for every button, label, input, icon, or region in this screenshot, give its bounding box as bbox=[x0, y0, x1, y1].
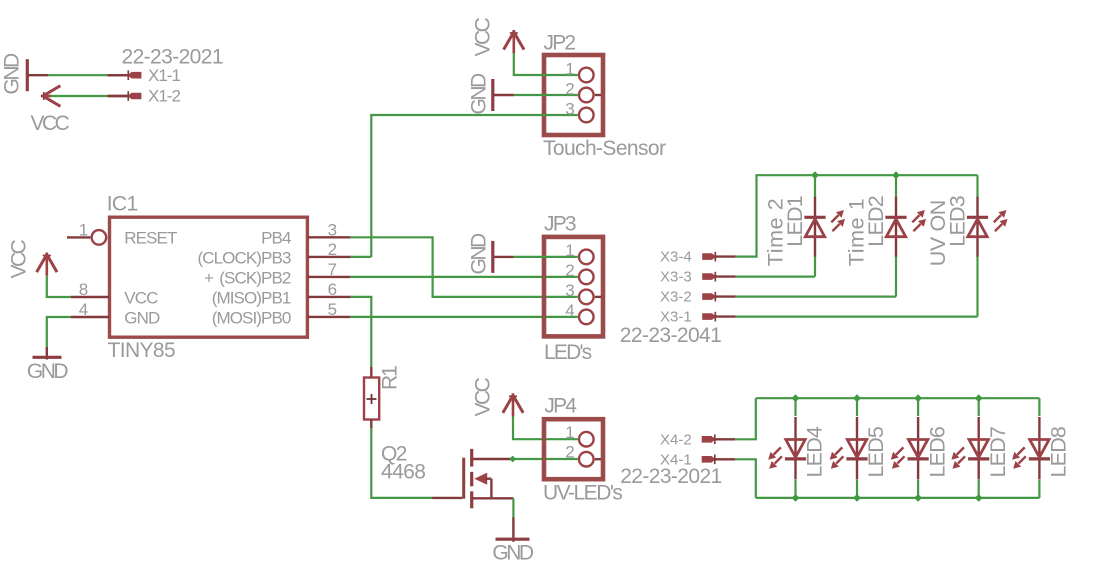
svg-text:3: 3 bbox=[565, 281, 574, 300]
connector JP2 box bbox=[544, 55, 603, 135]
wire GND to JP2 pin 2 bbox=[514, 94, 578, 96]
svg-text:GND: GND bbox=[27, 360, 69, 383]
IC1 pin 1 RESET bbox=[67, 230, 106, 245]
wire GND to JP3 pin 1 bbox=[514, 256, 578, 258]
LED LED7 bbox=[951, 417, 989, 479]
JP4 pin 2 bbox=[579, 452, 601, 467]
svg-text:8: 8 bbox=[79, 280, 88, 299]
svg-text:5: 5 bbox=[328, 300, 337, 319]
svg-text:+: + bbox=[204, 269, 214, 288]
svg-text:RESET: RESET bbox=[124, 229, 177, 248]
svg-text:VCC: VCC bbox=[8, 239, 31, 278]
svg-text:LED3: LED3 bbox=[945, 195, 969, 246]
junction at LED7 anode bbox=[975, 394, 983, 402]
svg-text:LED5: LED5 bbox=[864, 426, 888, 477]
svg-text:LED2: LED2 bbox=[864, 196, 888, 247]
wire rail to LED2 bbox=[895, 175, 897, 198]
svg-text:6: 6 bbox=[328, 280, 337, 299]
wire IC1 PB1 to R1 bbox=[350, 297, 371, 368]
wire LED6 to cathode rail bbox=[917, 480, 919, 498]
wire VCC to JP4 pin 1 bbox=[513, 416, 578, 439]
wire X3-3 to LED1 bbox=[736, 276, 815, 278]
wire rail to LED7 bbox=[978, 398, 980, 416]
svg-text:GND: GND bbox=[468, 233, 491, 275]
svg-text:2: 2 bbox=[328, 240, 337, 259]
supply symbol VCC at JP4 bbox=[503, 393, 523, 416]
svg-text:X1-1: X1-1 bbox=[148, 66, 180, 85]
svg-text:4468: 4468 bbox=[381, 461, 425, 484]
svg-text:X4-2: X4-2 bbox=[660, 432, 692, 449]
pin X3-4 bbox=[703, 252, 736, 262]
wire X4-2 to UV rail top bbox=[735, 398, 756, 439]
wire UV cathode rail bbox=[756, 497, 1040, 499]
LED LED1 bbox=[804, 197, 845, 257]
Q2 gate pin wire bbox=[432, 497, 462, 499]
svg-text:VCC: VCC bbox=[472, 17, 495, 56]
wire rail to LED8 bbox=[1038, 398, 1040, 416]
JP3 pin 1 bbox=[579, 250, 594, 265]
svg-text:LED7: LED7 bbox=[986, 427, 1010, 478]
connector JP3 box bbox=[544, 237, 603, 337]
wire IC1 PB0 to JP3 pin 4 bbox=[350, 316, 577, 318]
svg-text:IC1: IC1 bbox=[107, 193, 138, 216]
wire LED1 to X3-3 bbox=[814, 257, 816, 277]
ground symbol at X1-1 bbox=[27, 59, 48, 91]
junction at LED2 anode rail bbox=[892, 171, 900, 179]
wire IC1 pin 4 to GND bbox=[47, 317, 71, 348]
svg-text:1: 1 bbox=[565, 59, 574, 78]
wire rail to LED5 bbox=[856, 398, 858, 416]
svg-text:VCC: VCC bbox=[472, 377, 495, 416]
wire JP2 pin 3 to IC1 PB3 bbox=[371, 115, 578, 257]
JP3 pin 3 bbox=[579, 290, 602, 305]
pin X3-3 bbox=[703, 272, 736, 282]
wire Q2 source to GND bbox=[512, 498, 514, 519]
svg-text:22-23-2021: 22-23-2021 bbox=[122, 46, 223, 69]
IC1 pin 2 PB3 bbox=[308, 256, 350, 258]
svg-text:Touch-Sensor: Touch-Sensor bbox=[543, 137, 666, 160]
svg-text:LED1: LED1 bbox=[783, 196, 807, 247]
svg-text:X1-2: X1-2 bbox=[148, 87, 180, 106]
svg-text:LED4: LED4 bbox=[803, 426, 827, 477]
svg-text:3: 3 bbox=[565, 99, 574, 118]
svg-text:LED6: LED6 bbox=[925, 426, 949, 477]
svg-text:JP4: JP4 bbox=[544, 395, 577, 418]
wire X3-1 to LED3 bbox=[736, 316, 978, 318]
wire rail to LED6 bbox=[917, 398, 919, 416]
svg-text:(MOSI)PB0: (MOSI)PB0 bbox=[212, 309, 291, 328]
svg-text:1: 1 bbox=[565, 423, 574, 442]
wire VCC to X1-2 bbox=[51, 95, 109, 97]
IC1 pin 8 VCC bbox=[71, 296, 109, 298]
pin X4-2 bbox=[702, 435, 735, 445]
wire LED5 to cathode rail bbox=[856, 480, 858, 498]
svg-text:X3-3: X3-3 bbox=[660, 269, 692, 286]
pin X3-2 bbox=[703, 292, 736, 302]
wire GND to X1-1 bbox=[48, 74, 108, 76]
svg-text:(MISO)PB1: (MISO)PB1 bbox=[212, 289, 291, 308]
svg-text:2: 2 bbox=[565, 261, 574, 280]
pin X1-2 bbox=[108, 91, 141, 101]
junction at LED5 anode bbox=[853, 394, 861, 402]
svg-text:X3-1: X3-1 bbox=[660, 309, 692, 326]
svg-text:R1: R1 bbox=[379, 366, 402, 390]
svg-text:VCC: VCC bbox=[124, 288, 158, 307]
wire X3-2 to LED2 bbox=[736, 296, 896, 298]
LED LED4 bbox=[768, 417, 806, 479]
junction at LED4 cathode bbox=[792, 494, 800, 502]
svg-text:4: 4 bbox=[79, 300, 88, 319]
svg-text:LED8: LED8 bbox=[1047, 426, 1071, 477]
wire rail to LED3 bbox=[976, 175, 978, 198]
wire X4-1 to UV rail bottom bbox=[735, 459, 756, 498]
svg-text:2: 2 bbox=[565, 79, 574, 98]
wire LED8 to cathode rail bbox=[1038, 480, 1040, 498]
JP2 pin 3 bbox=[579, 108, 594, 123]
svg-text:4: 4 bbox=[565, 301, 574, 320]
ground symbol at JP3 pin 1 bbox=[493, 241, 514, 273]
wire LED7 to cathode rail bbox=[978, 480, 980, 498]
svg-text:3: 3 bbox=[328, 221, 337, 240]
wire VCC to IC1 pin 8 bbox=[47, 276, 71, 297]
junction at LED5 cathode bbox=[853, 494, 861, 502]
svg-text:LED's: LED's bbox=[544, 341, 592, 364]
junction at LED6 anode bbox=[914, 394, 922, 402]
supply symbol VCC at IC1 bbox=[37, 253, 57, 276]
LED LED5 bbox=[830, 417, 868, 479]
IC U1 (IC1 TINY85) box bbox=[110, 217, 308, 337]
IC1 pin 6 PB1 bbox=[308, 296, 350, 298]
IC1 pin 5 PB0 bbox=[308, 316, 350, 318]
wire rail to LED1 bbox=[814, 175, 816, 198]
wire IC1 PB2 to JP3 pin 2 bbox=[350, 276, 577, 278]
IC1 pin 4 GND bbox=[71, 316, 109, 318]
pin X4-1 bbox=[702, 455, 735, 465]
resistor R1 bbox=[364, 367, 379, 428]
junction at LED4 anode bbox=[792, 394, 800, 402]
svg-text:2: 2 bbox=[565, 443, 574, 462]
svg-text:GND: GND bbox=[1, 53, 24, 95]
junction at LED7 cathode bbox=[975, 494, 983, 502]
transistor Q2 (MOSFET) bbox=[464, 449, 514, 508]
svg-text:GND: GND bbox=[468, 73, 491, 115]
junction at LED6 cathode bbox=[914, 494, 922, 502]
wire VCC to JP2 pin 1 bbox=[514, 53, 578, 75]
connector JP4 box bbox=[544, 419, 603, 479]
JP2 pin 2 bbox=[579, 88, 601, 103]
svg-text:1: 1 bbox=[79, 220, 88, 239]
svg-text:GND: GND bbox=[124, 309, 160, 328]
LED LED3 bbox=[967, 197, 1008, 257]
svg-text:VCC: VCC bbox=[31, 112, 70, 135]
IC1 pin 3 PB4 bbox=[308, 236, 350, 238]
svg-text:1: 1 bbox=[565, 241, 574, 260]
IC1 pin 7 PB2 bbox=[308, 276, 350, 278]
wire IC1 PB3 stub to JP2 net bbox=[350, 256, 371, 258]
svg-text:X3-4: X3-4 bbox=[660, 249, 692, 266]
wire IC1 PB4 to JP3 pin 3 bbox=[350, 237, 577, 297]
pin X1-1 bbox=[108, 70, 141, 80]
LED LED6 bbox=[891, 417, 929, 479]
svg-text:(CLOCK)PB3: (CLOCK)PB3 bbox=[197, 249, 290, 268]
JP2 pin 1 bbox=[579, 68, 594, 83]
svg-text:JP2: JP2 bbox=[544, 32, 576, 55]
JP3 pin 4 bbox=[579, 310, 594, 325]
svg-text:7: 7 bbox=[328, 260, 337, 279]
LED LED2 bbox=[885, 197, 926, 257]
svg-text:(SCK)PB2: (SCK)PB2 bbox=[219, 269, 291, 288]
ground symbol below Q2 bbox=[496, 518, 530, 542]
wire LED2 to X3-2 bbox=[895, 257, 897, 297]
IC1 pin name + (SCK)PB2 bbox=[204, 269, 291, 288]
wire LED4 to cathode rail bbox=[794, 480, 796, 498]
svg-text:22-23-2041: 22-23-2041 bbox=[620, 324, 721, 347]
supply symbol VCC at X1-2 bbox=[41, 86, 61, 107]
svg-text:PB4: PB4 bbox=[261, 229, 291, 248]
junction at LED1 anode rail bbox=[811, 171, 819, 179]
wire X3-4 to LED rail bbox=[736, 175, 978, 256]
svg-text:UV-LED's: UV-LED's bbox=[543, 482, 622, 505]
JP4 pin 1 bbox=[579, 432, 594, 447]
wire R1 to Q2 gate bbox=[371, 428, 433, 498]
pin X3-1 bbox=[703, 312, 736, 322]
svg-text:TINY85: TINY85 bbox=[108, 339, 176, 362]
wire rail to LED4 bbox=[794, 398, 796, 416]
svg-text:JP3: JP3 bbox=[544, 213, 576, 236]
svg-text:X4-1: X4-1 bbox=[660, 452, 692, 469]
svg-text:GND: GND bbox=[492, 542, 534, 564]
JP3 pin 2 bbox=[579, 270, 594, 285]
junction Q2 drain bbox=[509, 456, 516, 463]
wire UV anode rail bbox=[756, 397, 1040, 399]
svg-text:X3-2: X3-2 bbox=[660, 289, 692, 306]
wire LED3 to X3-1 bbox=[976, 257, 978, 317]
ground symbol at JP2 pin 2 bbox=[493, 79, 514, 111]
supply symbol VCC at JP2 bbox=[504, 30, 524, 53]
LED LED8 bbox=[1012, 417, 1050, 479]
wire Q2 drain to JP4 pin 2 bbox=[513, 458, 578, 460]
ground symbol below IC1 bbox=[33, 347, 62, 360]
